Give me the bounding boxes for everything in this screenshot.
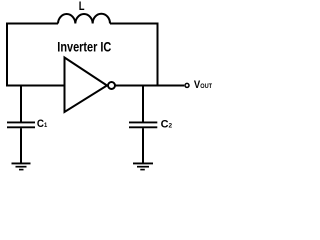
svg-text:VOUT: VOUT <box>194 79 212 91</box>
svg-text:C1: C1 <box>37 118 48 130</box>
svg-text:L: L <box>79 0 85 13</box>
svg-text:Inverter IC: Inverter IC <box>57 40 111 55</box>
svg-text:C2: C2 <box>161 118 173 130</box>
